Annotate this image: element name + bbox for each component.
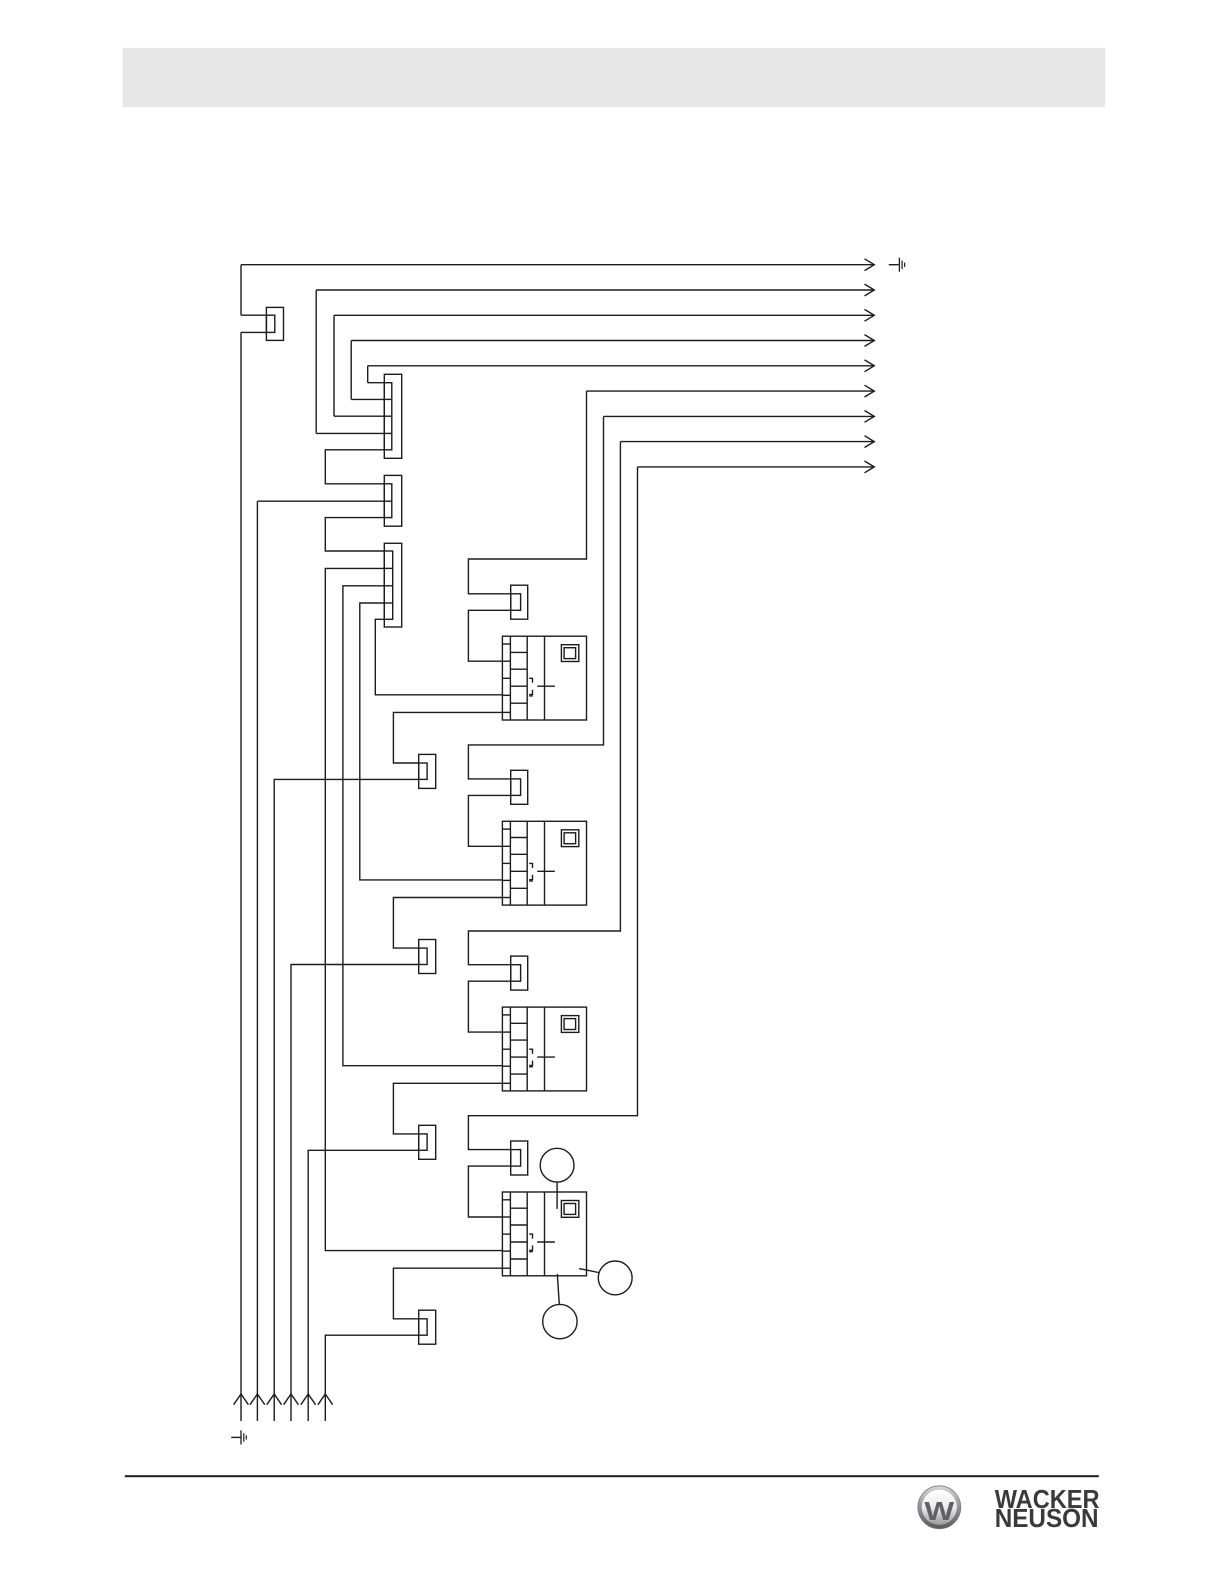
bottom arrowhead 6 — [318, 1394, 333, 1405]
relay K4 — [502, 1192, 586, 1276]
ground (bottom left) — [231, 1430, 246, 1444]
wire net 2 drop — [315, 290, 317, 433]
wire connector X4 pin 3 to relay K3 pin 2 — [343, 586, 503, 1066]
wire to connector X2 pin 2 — [351, 398, 384, 400]
wire connector X10 pin 2 to relay K1 pin 1 — [468, 610, 510, 661]
arrowhead net 9 — [865, 461, 875, 473]
wire net 2 to right arrow — [316, 289, 874, 291]
footer rule — [125, 1475, 1099, 1477]
wire to connector X2 pin 1 — [368, 382, 385, 384]
wire net 4 to right arrow — [351, 340, 874, 342]
wire to connector X1 pin 1 — [241, 314, 266, 316]
wire net 6 to right arrow — [587, 390, 875, 392]
wire connector X40 pin 2 to relay K4 pin 1 — [468, 1166, 510, 1217]
Wacker Neuson logo text — [995, 1484, 1100, 1533]
wire connector X4 pin 2 to relay K4 pin 2 — [325, 568, 502, 1250]
wire net 3 to right arrow — [334, 314, 874, 316]
wire net 8 to connector X30 pin 1 — [468, 442, 620, 965]
ground (top right) — [889, 258, 905, 272]
relay K2 — [502, 821, 586, 905]
wire net 7 to connector X20 pin 1 — [468, 416, 603, 779]
relay K2 contact cross — [537, 870, 555, 872]
connector X11 (inline) — [419, 754, 436, 788]
wire relay K2 pin 3 to connector X21 pin 1 — [393, 898, 502, 949]
wire net 8 to right arrow — [620, 441, 874, 443]
wire relay K4 to lamp H3 — [557, 1274, 559, 1304]
relay K3 — [502, 1007, 586, 1091]
relay K4 contact cross — [537, 1241, 555, 1243]
connector X31 (inline) — [419, 1125, 436, 1159]
connector X1 (inline, top left) — [266, 307, 283, 340]
wire connector X30 pin 2 to relay K3 pin 1 — [468, 981, 510, 1032]
wire connector X31 pin 2 to bottom arrow 5 — [308, 1150, 419, 1421]
svg-text:W: W — [924, 1496, 954, 1526]
wire connector X4 pin 4 to relay K2 pin 2 — [360, 603, 503, 880]
arrowhead net 4 — [865, 335, 875, 347]
header bar — [123, 48, 1105, 108]
wire connector X20 pin 2 to relay K2 pin 1 — [468, 795, 510, 846]
arrowhead net 7 — [865, 411, 875, 423]
relay K3 contact cross — [537, 1056, 555, 1058]
arrowhead net 5 — [865, 360, 875, 372]
relay K4 coil — [561, 1201, 578, 1218]
wire net 5 to right arrow — [368, 365, 875, 367]
relay K3 armature dashed link — [529, 1049, 533, 1067]
wire net 3 drop — [333, 315, 335, 416]
bottom arrowhead 3 — [267, 1394, 282, 1405]
wire connector X41 pin 2 to bottom arrow 6 — [325, 1335, 418, 1421]
lamp H1 — [540, 1148, 574, 1182]
wire relay K1 pin 3 to connector X11 pin 1 — [393, 712, 502, 763]
relay K1 contact cross — [537, 685, 555, 687]
wire net 1 drop — [240, 265, 242, 316]
bottom arrowhead 4 — [284, 1394, 299, 1405]
connector X21 (inline) — [419, 940, 436, 974]
lamp H3 — [543, 1304, 577, 1338]
wire lamp H1 to relay K4 — [556, 1182, 558, 1209]
wire net 5 drop — [367, 366, 369, 383]
wire relay K4 pin 3 to connector X41 pin 1 — [393, 1268, 502, 1319]
relay K2 armature dashed link — [529, 863, 533, 881]
wire relay K4 to lamp H2 — [579, 1269, 599, 1273]
wire connector X2 pin 5 to connector X3 pin 1 — [325, 450, 384, 484]
connector X10 (inline, relay K1 feed) — [511, 585, 528, 619]
wire net 1 to right arrow — [241, 264, 874, 266]
arrowhead net 6 — [865, 385, 875, 397]
relay K2 coil — [561, 830, 578, 847]
wire net 7 to right arrow — [604, 415, 875, 417]
relay K3 coil — [561, 1016, 578, 1033]
connector X3 (3-pin) — [384, 475, 401, 526]
wire connector X21 pin 2 to bottom arrow 4 — [291, 965, 419, 1422]
Wacker Neuson logo emblem — [918, 1486, 961, 1529]
wire net 4 drop — [350, 341, 352, 400]
bottom arrowhead 5 — [301, 1394, 316, 1405]
wire connector X3 pin 3 to connector X4 pin 1 — [325, 518, 384, 551]
relay K1 armature dashed link — [529, 678, 533, 696]
connector X41 (inline) — [419, 1310, 436, 1344]
connector X2 (4-pin) — [384, 374, 401, 458]
svg-text:NEUSON: NEUSON — [995, 1503, 1099, 1533]
wire net 9 to right arrow — [638, 466, 875, 468]
connector X30 (inline, relay K3 feed) — [511, 956, 528, 990]
relay K1 — [502, 636, 586, 720]
bottom arrowhead 1 — [234, 1394, 249, 1405]
wire to connector X2 pin 4 — [316, 432, 384, 434]
arrowhead net 3 — [865, 309, 875, 321]
wire connector X11 pin 2 to bottom arrow 3 — [274, 779, 419, 1421]
wire relay K3 pin 3 to connector X31 pin 1 — [393, 1083, 502, 1134]
wire connector X3 pin 2 to bus 2 — [257, 500, 384, 502]
bottom arrowhead 2 — [250, 1394, 265, 1405]
connector X20 (inline, relay K2 feed) — [511, 770, 528, 804]
wire from connector X1 pin 2 — [241, 331, 266, 333]
connector X40 (inline, relay K4 feed) — [511, 1141, 528, 1175]
relay K1 coil — [561, 645, 578, 662]
wire bus 2 (to bottom arrow 2) — [256, 501, 258, 1421]
connector X4 (5-pin) — [384, 543, 401, 627]
arrowhead net 1 — [865, 259, 875, 271]
arrowhead net 8 — [865, 436, 875, 448]
wire net 6 to connector X10 pin 1 — [468, 391, 586, 594]
arrowhead net 2 — [865, 284, 875, 296]
lamp H2 — [598, 1261, 632, 1295]
wire net 9 to connector X40 pin 1 — [468, 467, 637, 1150]
wire bus 1 (to bottom arrow 1) — [240, 332, 242, 1421]
relay K4 armature dashed link — [529, 1234, 533, 1252]
wire to connector X2 pin 3 — [334, 415, 384, 417]
wire connector X4 pin 5 to relay K1 pin 2 — [375, 619, 502, 695]
